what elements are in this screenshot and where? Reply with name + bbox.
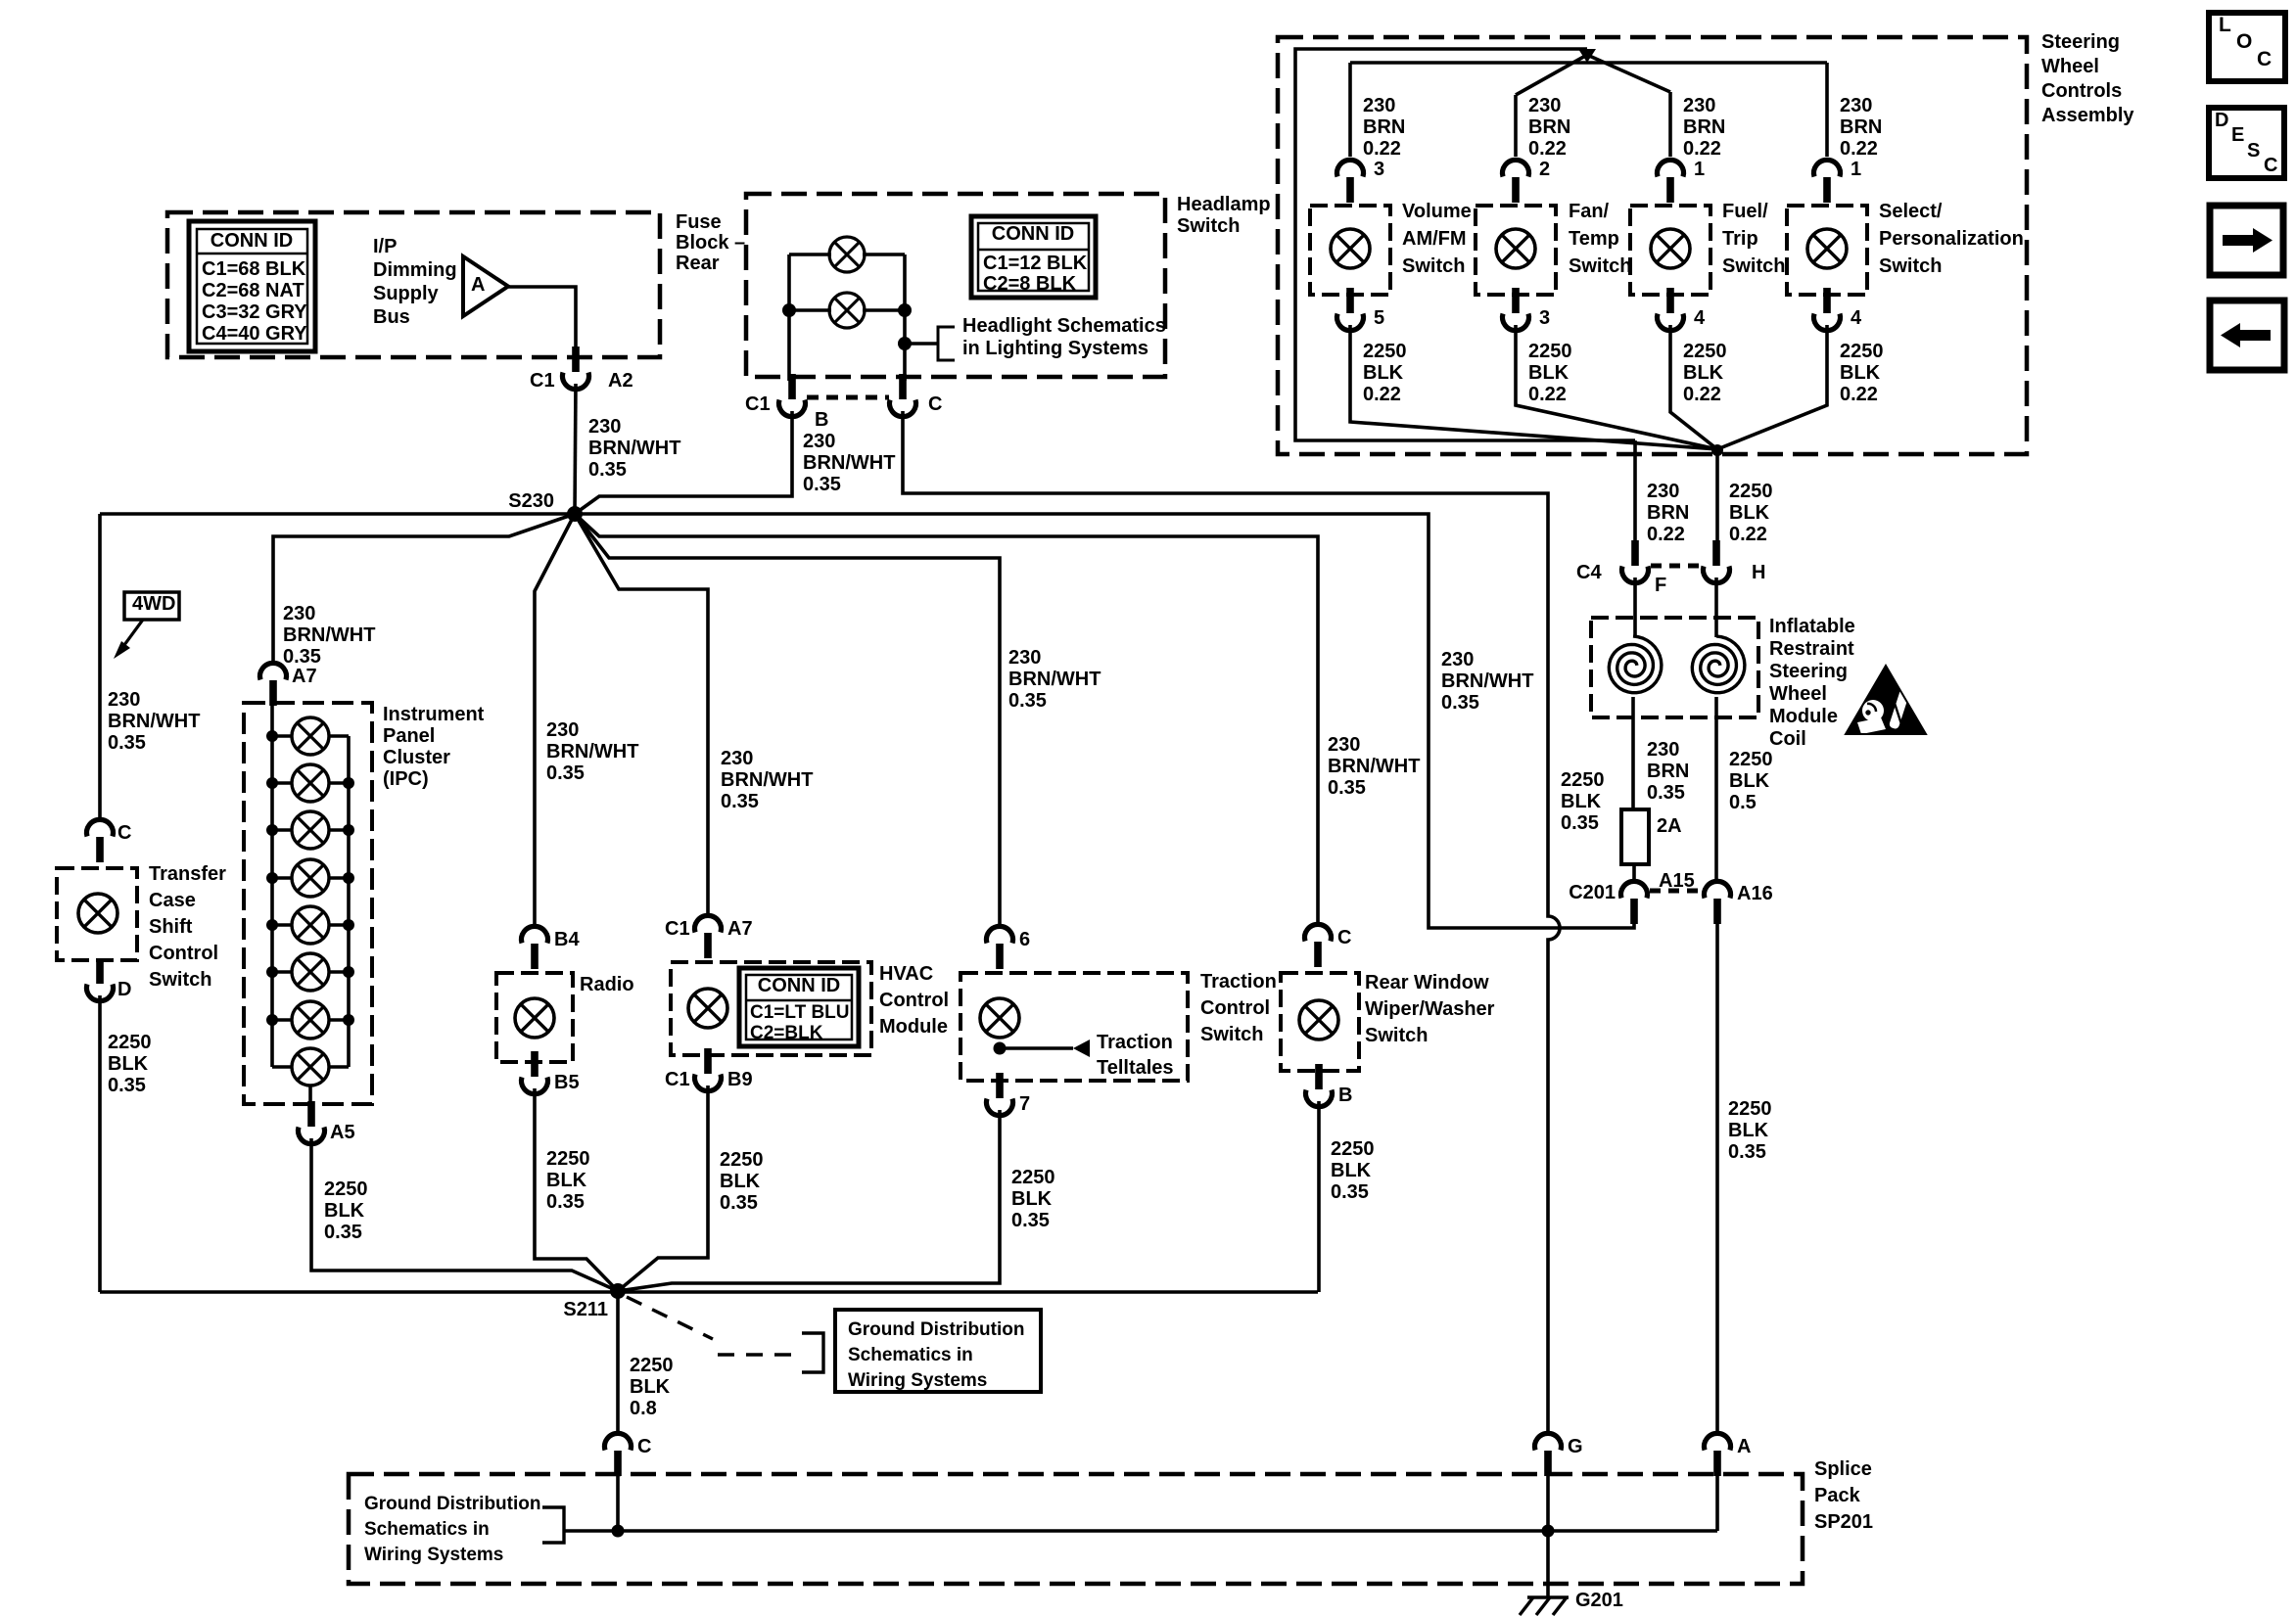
svg-text:0.22: 0.22 — [1363, 384, 1401, 405]
dashed tie between connector cavities F and H — [1651, 564, 1703, 569]
illumination lamp 3 (IPC) — [292, 811, 329, 849]
svg-text:BRN/WHT: BRN/WHT — [803, 452, 895, 474]
wire S230 to IPC connector A7 — [273, 514, 575, 662]
svg-text:Module: Module — [879, 1016, 948, 1038]
svg-text:A16: A16 — [1737, 883, 1773, 904]
svg-text:4WD: 4WD — [132, 593, 175, 615]
svg-text:Control: Control — [879, 990, 949, 1011]
wire 7 to splice S211 - 2250 BLK 0.35 — [618, 1110, 1000, 1291]
svg-text:BRN/WHT: BRN/WHT — [1328, 756, 1420, 777]
svg-text:2250: 2250 — [546, 1148, 590, 1170]
wire S230 to HVAC connector A7 — [575, 514, 708, 917]
svg-text:Switch: Switch — [1177, 215, 1240, 237]
Volume switch dashed outline — [1310, 206, 1390, 295]
svg-text:C1=12 BLK: C1=12 BLK — [983, 253, 1088, 274]
connector C1 / A2 (fuse block rear) — [563, 346, 589, 390]
svg-text:B4: B4 — [554, 929, 580, 950]
previous arrow icon box — [2210, 300, 2284, 370]
svg-text:2250: 2250 — [1331, 1138, 1375, 1160]
svg-text:1: 1 — [1851, 159, 1861, 180]
svg-text:2250: 2250 — [1363, 341, 1407, 362]
svg-text:0.35: 0.35 — [108, 1075, 146, 1096]
svg-text:G: G — [1568, 1436, 1583, 1457]
dashed tie between connector cavities A15 and A16 — [1650, 889, 1704, 894]
svg-text:0.22: 0.22 — [1840, 384, 1878, 405]
svg-text:BRN: BRN — [1840, 116, 1882, 138]
steering wheel controls assembly dashed outline — [1278, 37, 2027, 454]
illumination lamp (radio) — [515, 998, 554, 1038]
svg-text:4: 4 — [1851, 307, 1862, 329]
svg-text:BLK: BLK — [324, 1200, 365, 1222]
svg-text:Supply: Supply — [373, 283, 440, 304]
connector pin 2 (Fan switch) — [1503, 160, 1529, 203]
svg-text:0.35: 0.35 — [283, 646, 321, 668]
svg-text:2250: 2250 — [1683, 341, 1727, 362]
svg-text:in Lighting Systems: in Lighting Systems — [962, 338, 1148, 359]
wire B9 to splice S211 - 2250 BLK 0.35 — [618, 1086, 708, 1291]
svg-text:B9: B9 — [727, 1069, 753, 1090]
svg-text:Wheel: Wheel — [1769, 683, 1827, 705]
wire C into bus — [616, 1471, 620, 1531]
svg-text:BRN/WHT: BRN/WHT — [108, 711, 200, 732]
svg-text:Transfer: Transfer — [149, 863, 226, 885]
IPC lamp row 8 stubs — [272, 1065, 292, 1069]
junction dots on rails — [782, 303, 796, 317]
svg-text:Dimming: Dimming — [373, 259, 457, 281]
svg-text:Switch: Switch — [1722, 255, 1785, 277]
junction dot below lamp — [994, 1042, 1007, 1055]
svg-text:230: 230 — [1840, 95, 1872, 116]
wire H to coil — [1714, 577, 1718, 637]
svg-text:BLK: BLK — [630, 1376, 671, 1398]
svg-text:C2=BLK: C2=BLK — [750, 1023, 823, 1043]
IPC lamp row 6 stubs — [272, 970, 292, 974]
svg-text:I/P: I/P — [373, 236, 397, 257]
connector A16 — [1705, 881, 1731, 924]
svg-text:C2=8 BLK: C2=8 BLK — [983, 273, 1077, 295]
svg-text:G201: G201 — [1575, 1590, 1623, 1611]
headlamp switch internal rails — [789, 253, 831, 256]
svg-text:Wiring Systems: Wiring Systems — [364, 1545, 503, 1565]
bus wire S230 to C201/A15 - 230 BRN/WHT 0.35 — [575, 514, 1634, 928]
svg-text:2A: 2A — [1657, 815, 1682, 837]
junction dots on IPC rails — [266, 730, 278, 742]
svg-text:Wiring Systems: Wiring Systems — [848, 1370, 987, 1391]
IPC lamp row 1 stubs — [272, 734, 292, 738]
svg-text:C: C — [928, 393, 942, 415]
connector C (headlamp switch) — [890, 374, 916, 417]
wire assembly exit to connector C4 — [1633, 440, 1637, 547]
svg-text:BRN/WHT: BRN/WHT — [588, 438, 680, 459]
svg-text:Module: Module — [1769, 706, 1838, 727]
connector C1 / A7 (HVAC control module) — [695, 915, 722, 958]
IPC lamp row 4 stubs — [272, 876, 292, 880]
Fuel switch dashed outline — [1630, 206, 1710, 295]
connector B4 (radio) — [522, 926, 548, 969]
svg-text:Switch: Switch — [149, 969, 211, 991]
svg-text:0.35: 0.35 — [324, 1222, 362, 1243]
connector C1 / B9 (HVAC control module) — [695, 1048, 722, 1091]
svg-text:BLK: BLK — [1729, 502, 1770, 524]
wire B to splice S230 - 230 BRN/WHT 0.35 — [575, 411, 792, 514]
svg-text:230: 230 — [1441, 649, 1474, 670]
splice pack bus wire — [564, 1529, 1717, 1533]
IPC lamp row 5 stubs — [272, 923, 292, 927]
illumination bulb 1 (headlamp switch) — [829, 237, 865, 272]
svg-text:2250: 2250 — [1729, 749, 1773, 770]
supply feed inside assembly (from C4) — [1295, 49, 1635, 440]
illumination lamp 4 (IPC) — [292, 859, 329, 897]
dashed reference from S211 to ground distribution note — [627, 1297, 713, 1339]
ground bus wire to splice S211 — [100, 1290, 1318, 1294]
svg-text:BLK: BLK — [1011, 1188, 1053, 1210]
svg-text:BLK: BLK — [1331, 1160, 1372, 1181]
svg-text:(IPC): (IPC) — [383, 768, 429, 790]
wire gate A to connector A2 — [508, 287, 576, 356]
svg-text:230: 230 — [1683, 95, 1715, 116]
wire S230 to rear window wiper/washer switch connector C — [575, 514, 1318, 926]
connector B (rear window switch) — [1306, 1064, 1333, 1107]
illumination lamp (rear window switch) — [1299, 1000, 1338, 1039]
illumination lamp 2 (IPC) — [292, 764, 329, 802]
IPC lamp row 3 stubs — [272, 828, 292, 832]
svg-text:H: H — [1752, 562, 1765, 583]
svg-text:2250: 2250 — [108, 1032, 152, 1053]
return junction dot — [1711, 444, 1723, 456]
svg-text:C: C — [117, 822, 131, 844]
wire B5 to splice S211 - 2250 BLK 0.35 — [535, 1088, 618, 1291]
svg-text:AM/FM: AM/FM — [1402, 228, 1467, 250]
svg-text:Control: Control — [149, 943, 218, 964]
svg-text:C1: C1 — [745, 393, 771, 415]
svg-text:Bus: Bus — [373, 306, 410, 328]
svg-text:BRN/WHT: BRN/WHT — [546, 741, 638, 762]
illumination bulb 2 (headlamp switch) — [829, 293, 865, 328]
svg-text:Restraint: Restraint — [1769, 638, 1854, 660]
connector pin 1 (Fuel switch) — [1658, 160, 1684, 203]
svg-text:O: O — [2236, 30, 2252, 53]
svg-text:BRN: BRN — [1528, 116, 1570, 138]
svg-text:BLK: BLK — [720, 1171, 761, 1192]
svg-text:0.35: 0.35 — [1561, 812, 1599, 834]
svg-text:230: 230 — [1647, 481, 1679, 502]
illumination lamp (Fan switch) — [1496, 229, 1535, 268]
svg-text:D: D — [2215, 110, 2228, 131]
svg-text:0.8: 0.8 — [630, 1398, 657, 1419]
svg-text:Coil: Coil — [1769, 728, 1806, 750]
svg-text:BRN: BRN — [1647, 761, 1689, 782]
svg-text:0.35: 0.35 — [588, 459, 627, 481]
rear window wiper/washer switch dashed outline — [1281, 973, 1359, 1071]
illumination lamp 5 (IPC) — [292, 906, 329, 944]
tap line to traction telltales with arrowhead — [1000, 1046, 1073, 1050]
illumination lamp (HVAC) — [688, 989, 727, 1028]
svg-text:Personalization: Personalization — [1879, 228, 2024, 250]
svg-text:0.35: 0.35 — [720, 1192, 758, 1214]
svg-text:Block –: Block – — [676, 232, 745, 254]
svg-text:3: 3 — [1374, 159, 1384, 180]
connector B5 (radio) — [522, 1051, 548, 1094]
svg-text:Control: Control — [1200, 997, 1270, 1019]
svg-text:BLK: BLK — [1528, 362, 1570, 384]
connector D (transfer case shift control switch) — [87, 958, 114, 1001]
CONN ID table (HVAC) — [739, 968, 859, 1046]
LOC icon box — [2209, 13, 2285, 81]
connector 7 (traction control switch) — [987, 1073, 1013, 1116]
svg-text:A7: A7 — [727, 918, 753, 940]
svg-text:BRN/WHT: BRN/WHT — [283, 624, 375, 646]
svg-text:230: 230 — [546, 719, 579, 741]
svg-text:A: A — [1737, 1436, 1751, 1457]
illumination lamp (Select switch) — [1807, 229, 1847, 268]
svg-text:Radio: Radio — [580, 974, 634, 995]
splice S211 — [610, 1283, 626, 1299]
wire junction to connector H — [1715, 450, 1719, 547]
transfer case shift control switch dashed outline — [57, 868, 137, 960]
connector A5 (IPC) — [299, 1101, 325, 1144]
svg-text:B: B — [1338, 1085, 1352, 1106]
wire A16 to splice pack connector A - 2250 BLK 0.35 — [1715, 919, 1719, 1432]
svg-text:C: C — [1337, 927, 1351, 948]
svg-text:C4: C4 — [1576, 562, 1602, 583]
svg-text:BLK: BLK — [1728, 1120, 1769, 1141]
connector pin 1 (Select switch) — [1814, 160, 1841, 203]
svg-text:D: D — [117, 979, 131, 1000]
svg-text:C1: C1 — [665, 1069, 690, 1090]
svg-text:Telltales: Telltales — [1097, 1057, 1174, 1079]
switch return wires converge to H — [1350, 325, 1717, 449]
connector C1 / B (headlamp switch) — [779, 374, 806, 417]
clockspring coil (left winding) — [1609, 636, 1662, 693]
svg-text:4: 4 — [1694, 307, 1706, 329]
svg-text:Traction: Traction — [1200, 971, 1277, 993]
svg-text:230: 230 — [721, 748, 753, 769]
svg-text:0.22: 0.22 — [1729, 524, 1767, 545]
svg-text:3: 3 — [1539, 307, 1550, 329]
svg-text:1: 1 — [1694, 159, 1705, 180]
wire C to splice pack (2250 BLK) with hop over crossing — [903, 411, 1560, 1433]
wire A5 to splice S211 - 2250 BLK 0.35 — [311, 1138, 618, 1291]
tag 4WD with arrow — [124, 592, 179, 620]
wire D to ground bus - 2250 BLK 0.35 — [98, 995, 102, 1292]
svg-text:230: 230 — [283, 603, 315, 624]
wire down to transfer case switch — [98, 514, 102, 822]
clockspring coil (right winding) — [1692, 636, 1745, 693]
tap to headlight schematics bracket — [905, 342, 938, 346]
illumination lamp 6 (IPC) — [292, 953, 329, 991]
headlamp switch dashed outline — [746, 194, 1165, 377]
svg-text:Wheel: Wheel — [2041, 56, 2099, 77]
svg-text:BRN: BRN — [1363, 116, 1405, 138]
illumination lamp 1 (IPC) — [292, 717, 329, 755]
svg-text:S: S — [2247, 140, 2260, 162]
bus wire S230 to left (transfer case) — [100, 512, 575, 516]
svg-text:C1: C1 — [665, 918, 690, 940]
wire A2 to splice S230 - 230 BRN/WHT 0.35 — [575, 384, 576, 514]
svg-text:CONN ID: CONN ID — [758, 975, 840, 996]
svg-text:2250: 2250 — [630, 1355, 674, 1376]
wire G through bus to ground — [1546, 1471, 1550, 1597]
svg-text:Steering: Steering — [2041, 31, 2120, 53]
svg-text:C2=68 NAT: C2=68 NAT — [202, 280, 305, 301]
illumination lamp 8 (IPC) — [292, 1048, 329, 1086]
inflatable restraint steering wheel module coil dashed outline — [1591, 618, 1758, 717]
svg-text:Panel: Panel — [383, 725, 435, 747]
HVAC control module dashed outline — [671, 962, 871, 1055]
svg-text:0.22: 0.22 — [1840, 138, 1878, 160]
svg-text:Controls: Controls — [2041, 80, 2122, 102]
svg-text:2250: 2250 — [1728, 1098, 1772, 1120]
wire S211 to splice pack connector C - 2250 BLK 0.8 — [616, 1291, 620, 1433]
Select switch dashed outline — [1787, 206, 1867, 295]
svg-text:BRN: BRN — [1683, 116, 1725, 138]
svg-text:Fuel/: Fuel/ — [1722, 201, 1768, 222]
svg-text:230: 230 — [1008, 647, 1041, 669]
next arrow icon box — [2210, 206, 2283, 275]
wire coil to fuse 2A - 230 BRN 0.35 — [1631, 697, 1635, 809]
svg-text:0.35: 0.35 — [1328, 777, 1366, 799]
svg-text:Inflatable: Inflatable — [1769, 616, 1855, 637]
svg-text:0.22: 0.22 — [1528, 384, 1567, 405]
svg-text:HVAC: HVAC — [879, 963, 933, 985]
connector C201 / A15 — [1621, 881, 1648, 924]
svg-text:0.5: 0.5 — [1729, 792, 1757, 813]
svg-text:Instrument: Instrument — [383, 704, 485, 725]
svg-text:C4=40 GRY: C4=40 GRY — [202, 323, 307, 345]
svg-text:BLK: BLK — [1840, 362, 1881, 384]
svg-text:BLK: BLK — [1561, 791, 1602, 812]
svg-text:0.35: 0.35 — [546, 1191, 585, 1213]
svg-text:B5: B5 — [554, 1072, 580, 1093]
splice pack SP201 dashed outline — [349, 1474, 1803, 1584]
svg-text:BLK: BLK — [1729, 770, 1770, 792]
CONN ID table (headlamp switch) — [971, 216, 1096, 298]
feed junction (peak) — [1578, 49, 1596, 63]
svg-text:Cluster: Cluster — [383, 747, 450, 768]
svg-text:230: 230 — [1528, 95, 1561, 116]
ground G201 — [1527, 1595, 1569, 1598]
svg-text:BLK: BLK — [108, 1053, 149, 1075]
svg-text:S211: S211 — [563, 1299, 608, 1320]
fuse 2A (in-line) — [1621, 809, 1649, 864]
wire fuse to C201/A15 — [1632, 864, 1636, 882]
svg-text:L: L — [2219, 14, 2231, 36]
svg-text:Rear Window: Rear Window — [1365, 972, 1489, 993]
svg-text:Schematics in: Schematics in — [364, 1519, 490, 1540]
IPC internal rails — [270, 698, 274, 1067]
svg-text:0.35: 0.35 — [546, 762, 585, 784]
svg-text:0.35: 0.35 — [803, 474, 841, 495]
feed rail to switches 1 and 4 — [1350, 61, 1827, 65]
svg-text:BLK: BLK — [1363, 362, 1404, 384]
svg-text:Volume: Volume — [1402, 201, 1472, 222]
svg-text:C1: C1 — [530, 370, 555, 392]
svg-text:Switch: Switch — [1365, 1025, 1428, 1046]
svg-text:A2: A2 — [608, 370, 633, 392]
svg-text:A: A — [471, 274, 485, 296]
svg-text:6: 6 — [1019, 929, 1030, 950]
svg-text:7: 7 — [1019, 1093, 1030, 1115]
bracket to ground distribution note box — [802, 1333, 823, 1372]
svg-text:230: 230 — [108, 689, 140, 711]
svg-text:0.35: 0.35 — [1728, 1141, 1766, 1163]
fuse block - rear dashed outline — [167, 212, 660, 357]
svg-text:Switch: Switch — [1200, 1024, 1263, 1045]
svg-text:5: 5 — [1374, 307, 1384, 329]
svg-text:C: C — [2257, 48, 2272, 70]
svg-text:0.35: 0.35 — [108, 732, 146, 754]
svg-text:230: 230 — [588, 416, 621, 438]
connector C4 / F (steering column) — [1622, 540, 1649, 583]
splice S230 — [567, 506, 583, 522]
IPC lamp row 7 stubs — [272, 1018, 292, 1022]
svg-text:Assembly: Assembly — [2041, 105, 2134, 126]
svg-text:C3=32 GRY: C3=32 GRY — [202, 301, 307, 323]
svg-text:BLK: BLK — [1683, 362, 1724, 384]
illumination lamp (Fuel switch) — [1651, 229, 1690, 268]
svg-text:2: 2 — [1539, 159, 1550, 180]
svg-text:Schematics in: Schematics in — [848, 1345, 973, 1365]
stub from lamp 8 to connector A5 — [308, 1086, 312, 1108]
svg-text:BRN/WHT: BRN/WHT — [1008, 669, 1101, 690]
CONN ID table (fuse block) — [189, 221, 315, 351]
svg-text:Pack: Pack — [1814, 1485, 1861, 1506]
svg-text:Switch: Switch — [1879, 255, 1942, 277]
svg-text:BRN/WHT: BRN/WHT — [1441, 670, 1533, 692]
svg-text:A5: A5 — [330, 1122, 355, 1143]
svg-text:Headlight Schematics: Headlight Schematics — [962, 315, 1166, 337]
connector C (splice pack) — [605, 1433, 632, 1476]
IPC lamp row 2 stubs — [272, 781, 292, 785]
connector G (splice pack) — [1535, 1433, 1562, 1476]
connector pin 4 (Select switch) — [1814, 288, 1841, 331]
svg-text:0.22: 0.22 — [1683, 138, 1721, 160]
svg-text:230: 230 — [1328, 734, 1360, 756]
svg-text:230: 230 — [803, 431, 835, 452]
svg-text:CONN ID: CONN ID — [992, 223, 1074, 245]
svg-text:2250: 2250 — [324, 1178, 368, 1200]
connector pin 3 (Volume switch) — [1337, 160, 1364, 203]
svg-text:A7: A7 — [292, 666, 317, 687]
switch drop wires — [1348, 63, 1352, 157]
svg-text:Ground Distribution: Ground Distribution — [364, 1494, 540, 1514]
svg-text:CONN ID: CONN ID — [211, 230, 293, 252]
svg-text:0.22: 0.22 — [1528, 138, 1567, 160]
dashed tie between connector cavities B and C — [807, 395, 889, 400]
svg-text:Wiper/Washer: Wiper/Washer — [1365, 998, 1495, 1020]
connector pin 3 (Fan switch) — [1503, 288, 1529, 331]
svg-text:BLK: BLK — [546, 1170, 587, 1191]
instrument panel cluster dashed outline — [244, 703, 372, 1104]
svg-text:Rear: Rear — [676, 253, 720, 274]
illumination lamp (transfer case switch) — [78, 894, 117, 933]
svg-text:Steering: Steering — [1769, 661, 1848, 682]
svg-text:C201: C201 — [1569, 882, 1616, 903]
illumination lamp (Volume switch) — [1331, 229, 1370, 268]
ground distribution schematics note box — [835, 1310, 1041, 1392]
svg-text:230: 230 — [1363, 95, 1395, 116]
svg-text:0.35: 0.35 — [1011, 1210, 1050, 1231]
svg-text:2250: 2250 — [1011, 1167, 1055, 1188]
connector 6 (traction control switch) — [987, 926, 1013, 969]
connector C (rear window wiper/washer switch) — [1305, 924, 1332, 967]
svg-text:0.35: 0.35 — [1331, 1181, 1369, 1203]
svg-text:C: C — [637, 1436, 651, 1457]
svg-text:SP201: SP201 — [1814, 1511, 1873, 1533]
svg-text:2250: 2250 — [1528, 341, 1572, 362]
bracket from note to splice bus — [542, 1507, 564, 1543]
wire S230 to traction control switch connector 6 — [575, 514, 1000, 928]
